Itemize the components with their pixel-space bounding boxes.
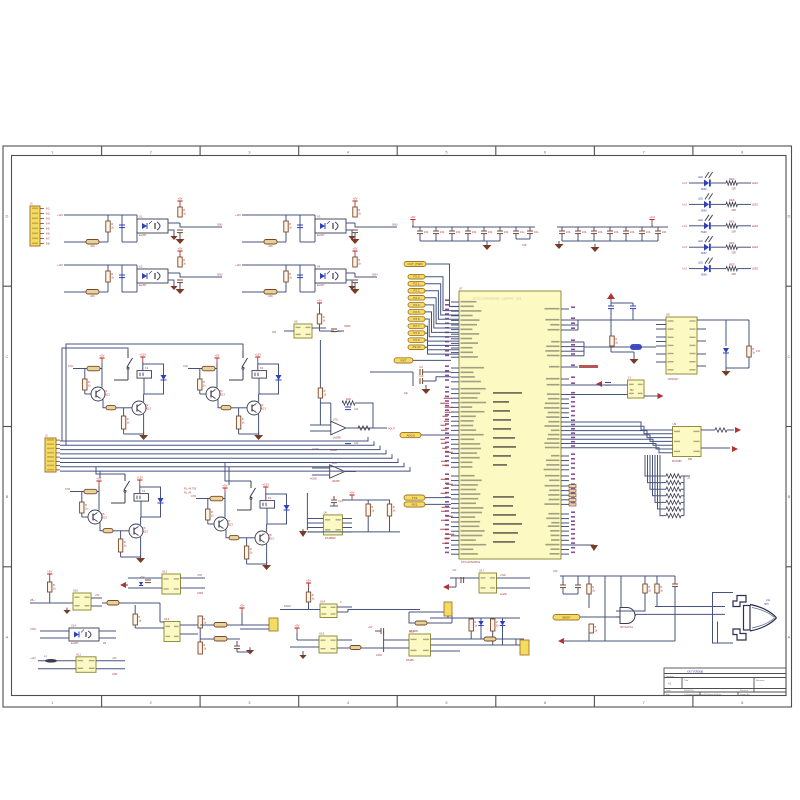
resistor R74 <box>107 601 119 606</box>
svg-text:5MM: 5MM <box>701 274 707 277</box>
wire <box>561 553 569 555</box>
svg-text:+5V: +5V <box>239 604 244 608</box>
connector P4 <box>520 640 529 655</box>
ground <box>254 432 263 440</box>
wire <box>451 549 459 551</box>
wire <box>451 503 459 505</box>
resistor R85 <box>350 646 361 650</box>
resistor R57 <box>229 536 239 540</box>
wire <box>655 606 725 608</box>
wire <box>64 291 108 293</box>
ground <box>176 236 185 244</box>
svg-text:R: R <box>88 380 90 384</box>
wire <box>200 638 214 640</box>
wire <box>136 280 138 292</box>
transistor Q7 <box>214 517 233 531</box>
wire <box>650 455 666 489</box>
svg-text:U15: U15 <box>319 632 325 636</box>
wire <box>320 330 335 332</box>
capacitor C19 <box>591 230 603 234</box>
wire <box>266 508 268 524</box>
svg-text:U14: U14 <box>320 600 326 604</box>
ground <box>483 242 492 250</box>
svg-text:LM358: LM358 <box>333 436 341 440</box>
wire <box>483 234 485 241</box>
svg-text:Sheet of: Sheet of <box>740 689 749 692</box>
wire <box>451 530 459 532</box>
wire <box>180 273 222 277</box>
wire <box>451 539 459 541</box>
svg-text:LED3: LED3 <box>752 225 759 228</box>
resistor R30 <box>342 397 355 405</box>
wire <box>516 639 524 645</box>
svg-text:10K: 10K <box>90 244 95 248</box>
wire <box>302 529 304 531</box>
optocoupler U2 <box>137 265 168 288</box>
resistor R11 <box>264 240 277 249</box>
wire <box>713 593 734 644</box>
svg-text:B: B <box>6 494 9 499</box>
wire <box>346 280 352 285</box>
power flag +12V <box>136 476 143 486</box>
resistor R43 <box>198 379 207 390</box>
MCU right pins <box>544 308 576 555</box>
svg-text:SIN1: SIN1 <box>217 224 223 227</box>
svg-text:R: R <box>211 510 213 514</box>
power flag +5V <box>222 484 227 494</box>
wire <box>370 427 387 429</box>
wire <box>689 182 704 184</box>
wire <box>113 530 129 532</box>
wire <box>277 241 286 243</box>
svg-text:D: D <box>788 214 791 219</box>
svg-text:+5V: +5V <box>349 491 354 495</box>
svg-text:FB: FB <box>103 642 106 645</box>
wire <box>426 264 459 306</box>
wire <box>207 520 209 524</box>
wire <box>738 246 752 248</box>
wire <box>451 425 459 427</box>
wire <box>196 498 210 500</box>
svg-text:+5V: +5V <box>410 215 415 219</box>
svg-text:20R: 20R <box>732 230 737 233</box>
wire <box>569 444 673 450</box>
wire <box>561 518 569 520</box>
wire <box>236 641 238 646</box>
wire <box>128 587 162 589</box>
ground <box>722 368 731 376</box>
wire <box>561 384 569 386</box>
wire <box>431 644 461 646</box>
svg-text:C:\Users\Desktop\sch\Voltage.S: C:\Users\Desktop\sch\Voltage.SchDoc <box>684 693 722 696</box>
svg-text:R: R <box>615 337 617 341</box>
IC U16 <box>162 570 181 595</box>
wire <box>310 430 331 432</box>
resistor R28 <box>318 388 327 398</box>
power flag +5V <box>99 354 104 364</box>
wire <box>435 234 437 241</box>
capacitor C10 <box>433 230 445 234</box>
resistor R70 <box>666 507 681 511</box>
wire <box>122 241 137 243</box>
wire <box>123 408 125 416</box>
wire <box>102 602 107 604</box>
wire <box>711 182 726 184</box>
wire <box>431 650 461 652</box>
wire <box>726 367 749 369</box>
svg-text:U14: U14 <box>71 624 76 628</box>
capacitor C7 <box>297 275 303 278</box>
svg-text:A: A <box>788 634 791 639</box>
wire <box>242 214 315 216</box>
svg-text:104: 104 <box>504 230 509 234</box>
power arrow <box>607 293 615 299</box>
wire <box>564 640 675 642</box>
power flag +5V <box>214 354 219 364</box>
wire <box>299 215 301 242</box>
svg-text:5MM: 5MM <box>701 209 707 212</box>
wire <box>657 605 700 607</box>
svg-text:+12V: +12V <box>139 353 146 357</box>
power flag +5V <box>47 570 52 580</box>
resistor R9 <box>178 257 187 267</box>
IC U19 <box>319 632 337 654</box>
wire <box>180 223 222 227</box>
wire <box>96 660 125 662</box>
wire <box>231 407 247 409</box>
wire <box>610 299 612 306</box>
wire <box>60 454 392 458</box>
svg-text:R20: R20 <box>346 397 351 401</box>
wire <box>561 464 569 466</box>
svg-text:+5V: +5V <box>368 626 373 629</box>
polarized capacitor <box>45 659 57 663</box>
wire <box>561 455 569 457</box>
wire <box>333 496 335 500</box>
wire <box>561 447 569 449</box>
resistor R2 <box>106 221 115 232</box>
wire <box>98 486 100 492</box>
wire <box>246 538 248 546</box>
power flag +5V <box>352 247 357 257</box>
svg-text:RES: RES <box>729 198 735 202</box>
wire <box>200 624 214 626</box>
wire <box>143 378 145 394</box>
svg-text:R: R <box>138 615 140 619</box>
wire <box>561 539 569 541</box>
wire <box>451 475 459 477</box>
wire <box>319 308 321 314</box>
svg-text:R: R <box>124 540 126 544</box>
wire <box>409 612 452 623</box>
wire <box>569 366 578 368</box>
wire <box>451 521 459 523</box>
connector P3 <box>444 602 452 616</box>
wire <box>689 203 704 205</box>
wire <box>228 467 230 485</box>
wire <box>342 499 390 501</box>
svg-text:R: R <box>127 417 129 421</box>
wire <box>389 500 391 504</box>
wire <box>499 234 501 241</box>
wire <box>451 462 459 464</box>
wire <box>451 498 459 500</box>
svg-text:TX2: TX2 <box>412 496 418 500</box>
wire <box>611 302 633 304</box>
svg-text:SIN3: SIN3 <box>392 224 398 227</box>
svg-text:P2.6: P2.6 <box>413 317 420 321</box>
wire <box>674 587 676 592</box>
wire <box>683 476 685 489</box>
resistor R58 <box>244 546 253 559</box>
svg-text:+3.3: +3.3 <box>649 215 655 219</box>
wire <box>320 402 330 404</box>
wire <box>529 234 531 239</box>
wire <box>561 346 569 348</box>
wire <box>383 640 385 652</box>
wire <box>296 633 298 640</box>
wire <box>430 617 520 619</box>
capacitor C11 <box>449 230 461 234</box>
resistor R12 <box>284 221 293 232</box>
wire <box>620 596 622 608</box>
svg-text:5MM: 5MM <box>701 231 707 234</box>
wire <box>593 227 595 231</box>
wire <box>656 576 658 584</box>
ground <box>170 234 177 240</box>
capacitor C38 <box>575 585 581 588</box>
resistor R60 <box>610 336 619 346</box>
svg-text:CH3: CH3 <box>65 488 70 491</box>
svg-text:R: R <box>660 585 662 589</box>
connector J2 <box>45 434 60 473</box>
capacitor C25 <box>419 374 424 384</box>
wire <box>199 369 201 380</box>
IC U21 <box>479 569 497 594</box>
ground <box>351 286 360 294</box>
resistor R46 <box>236 416 245 429</box>
svg-text:R: R <box>85 503 87 507</box>
wire <box>561 324 569 326</box>
wire <box>451 420 459 422</box>
IC U6 <box>294 320 312 339</box>
svg-text:20R: 20R <box>732 273 737 276</box>
ground <box>443 584 449 590</box>
wire <box>561 530 569 532</box>
svg-text:+5V: +5V <box>96 477 101 481</box>
diode D9 <box>284 505 290 510</box>
resistor R66 <box>666 480 681 484</box>
wire <box>697 353 706 355</box>
svg-text:+3.3: +3.3 <box>682 182 687 185</box>
svg-text:20R: 20R <box>732 209 737 212</box>
wire <box>561 544 569 546</box>
svg-text:9013: 9013 <box>219 393 225 397</box>
svg-text:EL357: EL357 <box>317 283 325 287</box>
ground <box>170 284 177 290</box>
wire <box>423 380 436 382</box>
wire <box>314 215 316 223</box>
resistor R91 <box>484 637 496 641</box>
svg-text:104: 104 <box>646 230 651 234</box>
svg-text:VREF: VREF <box>344 325 351 328</box>
wire <box>689 268 704 270</box>
wire <box>561 355 569 357</box>
wire <box>460 638 520 640</box>
capacitor C13 <box>481 230 493 234</box>
wire <box>99 637 116 639</box>
wire <box>681 495 684 497</box>
ground <box>591 244 600 252</box>
net label RST <box>394 358 413 363</box>
wire <box>683 476 685 516</box>
transistor Q4 <box>247 401 266 415</box>
wire <box>492 631 494 645</box>
wire <box>725 353 727 368</box>
svg-text:GND: GND <box>112 673 118 676</box>
wire <box>215 368 217 370</box>
resistor R54 <box>210 496 223 501</box>
wire <box>451 310 459 312</box>
svg-text:104: 104 <box>456 230 461 234</box>
wire <box>361 647 400 649</box>
wire <box>246 559 248 564</box>
wire <box>122 291 137 293</box>
wire <box>299 265 301 292</box>
wire <box>96 467 125 474</box>
wire <box>497 577 531 579</box>
wire <box>179 233 181 237</box>
wire <box>400 647 409 649</box>
wire <box>143 364 164 375</box>
svg-text:EL357: EL357 <box>139 233 147 237</box>
wire <box>123 429 125 434</box>
svg-text:LED: LED <box>698 176 703 179</box>
svg-text:K3: K3 <box>142 489 146 493</box>
wire <box>121 215 123 242</box>
wire <box>697 340 706 342</box>
wire <box>451 439 459 441</box>
net label P2.0 <box>408 274 425 279</box>
wire <box>561 394 569 396</box>
svg-text:R: R <box>250 547 252 551</box>
wire <box>561 412 569 414</box>
capacitor C29 <box>331 499 343 503</box>
svg-text:+5V: +5V <box>47 570 52 574</box>
wire <box>367 500 369 504</box>
wire <box>425 298 459 324</box>
resistor R25 <box>726 262 738 270</box>
wire <box>144 380 164 394</box>
wire <box>425 319 459 337</box>
wire <box>239 433 259 435</box>
svg-text:IN6: IN6 <box>46 233 50 236</box>
wire <box>561 407 569 409</box>
wire <box>81 513 83 517</box>
svg-text:104: 104 <box>614 230 619 234</box>
wire <box>561 494 569 496</box>
svg-text:9013: 9013 <box>260 407 266 411</box>
svg-text:RS485: RS485 <box>406 659 414 662</box>
resistor R31 <box>358 426 370 430</box>
wire <box>285 265 287 292</box>
wire <box>143 394 145 402</box>
wire <box>425 284 459 315</box>
svg-text:C9: C9 <box>419 365 423 369</box>
svg-text:IN8: IN8 <box>46 243 50 246</box>
wire <box>354 283 356 287</box>
wire <box>738 182 752 184</box>
wire <box>451 512 459 514</box>
wire <box>355 403 373 428</box>
svg-text:+12V: +12V <box>30 657 36 660</box>
wire <box>561 425 569 427</box>
resistor R77 <box>198 616 207 628</box>
svg-text:470: 470 <box>756 350 761 353</box>
svg-text:Date: Date <box>666 689 671 692</box>
capacitor C15 <box>513 230 525 234</box>
relay contact <box>111 474 130 503</box>
wire <box>140 501 142 517</box>
wire <box>60 450 386 454</box>
svg-text:P2.2: P2.2 <box>413 289 420 293</box>
wire <box>107 265 109 292</box>
wire <box>266 524 268 532</box>
MCU left pins <box>451 301 486 555</box>
ground <box>555 241 564 249</box>
svg-text:R: R <box>111 272 113 276</box>
svg-text:R: R <box>289 222 291 226</box>
IC U9 <box>323 510 342 535</box>
wire <box>120 531 122 539</box>
wire <box>436 377 451 381</box>
svg-text:U9: U9 <box>673 422 677 426</box>
relay K2 <box>252 366 267 378</box>
wire <box>346 272 355 274</box>
svg-text:+12V: +12V <box>235 214 241 217</box>
wire <box>609 234 611 241</box>
wire <box>451 356 459 358</box>
svg-text:U7: U7 <box>459 287 463 291</box>
wire <box>99 291 108 293</box>
resistor R14 <box>353 207 362 217</box>
svg-text:U12: U12 <box>162 570 168 574</box>
wire <box>237 651 250 653</box>
wire <box>412 381 414 386</box>
power flag +5V <box>294 624 299 634</box>
wire <box>561 480 569 482</box>
wire <box>60 463 404 467</box>
resistor R98 <box>589 624 598 633</box>
wire <box>569 439 673 445</box>
wire <box>451 376 459 378</box>
svg-text:LED: LED <box>698 219 703 222</box>
IC U15 <box>76 652 96 672</box>
svg-text:LED: LED <box>698 262 703 265</box>
wire <box>684 475 690 477</box>
wire <box>451 526 459 528</box>
wire <box>660 455 666 516</box>
ground <box>136 555 145 563</box>
capacitor C4 <box>177 280 183 283</box>
wire <box>515 234 517 239</box>
wire <box>656 345 666 347</box>
wire <box>419 234 421 241</box>
wire <box>738 268 752 270</box>
wire <box>657 227 659 231</box>
wire <box>66 344 243 445</box>
svg-text:P2.10: P2.10 <box>413 345 421 349</box>
